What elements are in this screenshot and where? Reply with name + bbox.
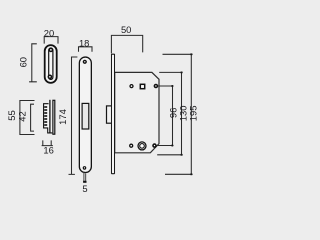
svg-text:18: 18 (79, 37, 89, 48)
strike screw hole bottom (48, 75, 51, 78)
dim 60 line (29, 44, 37, 82)
hole bottom small (130, 144, 133, 147)
dim 20 line (44, 37, 58, 44)
strike side view plate (53, 100, 55, 134)
lock faceplate front view (79, 57, 91, 173)
dim 42 line (31, 104, 34, 131)
dim 5 arrow blob (83, 181, 86, 183)
svg-text:42: 42 (17, 111, 28, 121)
svg-text:20: 20 (44, 27, 54, 38)
fixing hole bottom (153, 144, 156, 147)
dim 174 line (69, 57, 78, 174)
faceplate latch cutout (82, 103, 89, 129)
svg-text:16: 16 (43, 144, 53, 155)
strike screw hole top (49, 48, 52, 51)
dim 50 line (111, 35, 142, 53)
faceplate screw hole top (83, 60, 86, 63)
svg-text:195: 195 (187, 106, 198, 122)
svg-text:50: 50 (121, 24, 131, 35)
fixing hole top (154, 85, 157, 88)
WC follower outer circle (138, 142, 146, 150)
dim 16 line (42, 140, 53, 145)
strike side view front wall (49, 100, 51, 133)
dim 18 line (79, 47, 93, 52)
svg-text:5: 5 (82, 183, 87, 194)
spindle square (140, 84, 144, 88)
hole top small (130, 85, 133, 88)
strike side view box outline (44, 104, 53, 133)
lock case body (115, 72, 159, 152)
faceplate screw hole bottom (83, 167, 85, 169)
strike plate slot (49, 48, 53, 79)
dim 130 end ticks (181, 72, 183, 74)
dim 96 line (157, 85, 174, 146)
svg-text:55: 55 (6, 110, 17, 120)
strike plate front view outline (45, 45, 57, 83)
svg-text:60: 60 (17, 57, 28, 67)
dim 55 line (20, 101, 35, 135)
dim 195 line (163, 54, 193, 174)
lock faceplate edge-on (111, 54, 114, 175)
strike side view magnet stripes (44, 106, 47, 126)
dim 130 line (157, 72, 183, 154)
latch bolt (107, 106, 113, 123)
dim 195 end ticks (190, 53, 192, 55)
dim 5 extension lines (84, 172, 86, 183)
svg-text:174: 174 (57, 109, 68, 125)
dim 96 end ticks (171, 85, 173, 87)
WC follower inner circle (140, 144, 145, 149)
